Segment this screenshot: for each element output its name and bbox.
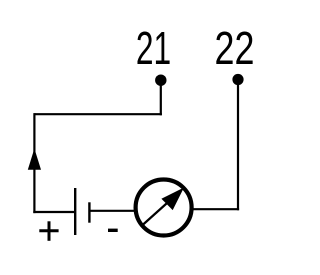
terminal dot 22 [232, 74, 243, 85]
terminal dot 21 [155, 75, 166, 86]
arrowhead on left wire (current direction up) [28, 149, 41, 170]
svg-text:22: 22 [215, 23, 255, 74]
wire battery to meter [89, 210, 135, 212]
battery positive plate (long) [74, 188, 76, 235]
svg-text:21: 21 [136, 23, 171, 74]
meter M1 circle [136, 180, 192, 236]
label 21 [136, 23, 171, 74]
meter needle arrowhead [161, 188, 184, 211]
minus sign [108, 229, 118, 232]
wire meter to right vertical [193, 208, 240, 210]
wire vertical left [33, 113, 35, 213]
wire bottom left to battery [33, 211, 75, 213]
plus sign [39, 221, 58, 241]
battery negative plate (short) [88, 202, 90, 222]
wire from terminal 21 down [160, 80, 162, 115]
meter needle line [142, 195, 176, 226]
wire from terminal 22 down [237, 80, 239, 211]
wire horizontal top [34, 113, 161, 115]
label 22 [215, 23, 255, 74]
